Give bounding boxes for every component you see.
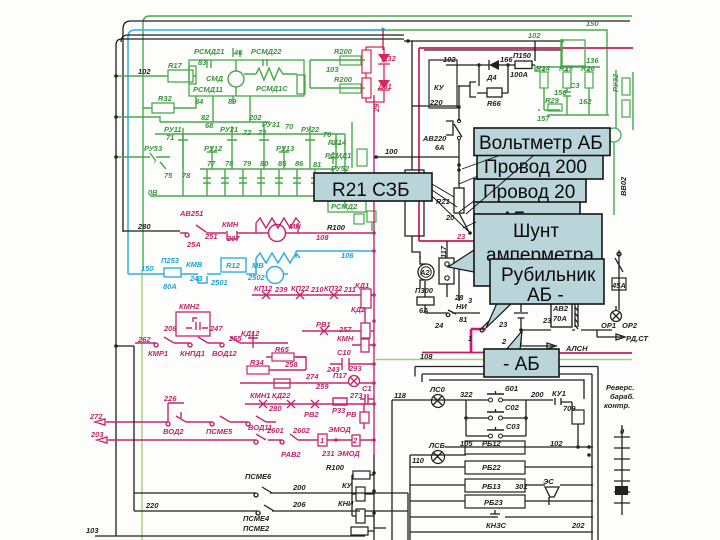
svg-text:R29: R29	[545, 96, 560, 105]
svg-text:С1: С1	[362, 384, 372, 393]
svg-text:КМВ: КМВ	[186, 260, 203, 269]
svg-text:R24: R24	[536, 64, 551, 73]
svg-text:ЭС: ЭС	[543, 477, 554, 486]
svg-text:150: 150	[141, 264, 154, 273]
svg-text:105: 105	[460, 439, 473, 448]
svg-text:РУ12: РУ12	[204, 144, 223, 153]
svg-text:Р33: Р33	[332, 406, 346, 415]
svg-text:РУ14: РУ14	[328, 138, 347, 147]
svg-text:РСМД11: РСМД11	[193, 85, 223, 94]
svg-text:РУ22: РУ22	[301, 125, 320, 134]
svg-text:102: 102	[443, 55, 456, 64]
svg-text:2601: 2601	[266, 426, 284, 435]
svg-text:КМН1: КМН1	[250, 391, 270, 400]
svg-text:6А: 6А	[435, 143, 445, 152]
svg-text:29: 29	[372, 103, 381, 113]
svg-text:2602: 2602	[292, 426, 311, 435]
svg-text:НИ: НИ	[456, 302, 467, 311]
svg-text:ЭМОД: ЭМОД	[328, 425, 351, 434]
svg-text:220: 220	[145, 501, 159, 510]
svg-text:КНИ: КНИ	[338, 499, 354, 508]
svg-text:РУ21: РУ21	[220, 125, 238, 134]
svg-text:293: 293	[348, 364, 362, 373]
svg-text:70: 70	[285, 122, 294, 131]
svg-text:226: 226	[163, 394, 177, 403]
svg-text:КД1: КД1	[355, 281, 369, 290]
svg-text:РУ32: РУ32	[611, 73, 620, 92]
svg-text:301: 301	[515, 482, 528, 491]
svg-text:103: 103	[86, 526, 99, 535]
svg-text:РБ23: РБ23	[484, 498, 503, 507]
svg-text:70А: 70А	[553, 314, 567, 323]
svg-text:РД,СТ: РД,СТ	[626, 334, 649, 343]
svg-text:R65: R65	[275, 345, 290, 354]
svg-text:1: 1	[320, 436, 324, 445]
svg-text:РУ13: РУ13	[276, 144, 295, 153]
svg-text:R34: R34	[250, 358, 265, 367]
svg-text:272: 272	[89, 412, 103, 421]
svg-text:П17: П17	[333, 371, 348, 380]
svg-text:АВ251: АВ251	[179, 209, 203, 218]
svg-text:РБ22: РБ22	[482, 463, 501, 472]
svg-text:200: 200	[292, 483, 306, 492]
svg-text:ПСМЕ6: ПСМЕ6	[245, 472, 272, 481]
svg-text:150: 150	[586, 19, 599, 28]
svg-text:84: 84	[195, 97, 204, 106]
svg-text:102: 102	[528, 31, 541, 40]
svg-text:220: 220	[429, 98, 443, 107]
svg-text:КД2: КД2	[351, 305, 366, 314]
svg-text:72: 72	[243, 128, 252, 137]
svg-text:Д4: Д4	[486, 73, 497, 82]
svg-text:А2: А2	[419, 268, 430, 277]
svg-text:ВОД12: ВОД12	[212, 349, 238, 358]
svg-text:322: 322	[460, 390, 473, 399]
svg-text:258: 258	[284, 360, 298, 369]
svg-text:100А: 100А	[510, 70, 528, 79]
svg-text:257: 257	[338, 325, 352, 334]
svg-text:206: 206	[292, 500, 306, 509]
svg-text:25А: 25А	[186, 240, 201, 249]
svg-text:РАВ2: РАВ2	[281, 450, 301, 459]
svg-text:Провод 20: Провод 20	[483, 182, 575, 203]
svg-text:МН: МН	[289, 222, 301, 231]
svg-text:R25: R25	[559, 64, 574, 73]
svg-text:Шунт: Шунт	[513, 221, 559, 242]
svg-text:КМН2: КМН2	[179, 302, 200, 311]
svg-text:КД22: КД22	[272, 391, 291, 400]
svg-text:Рубильник: Рубильник	[501, 265, 596, 286]
svg-text:РВ1: РВ1	[316, 320, 331, 329]
svg-text:85: 85	[278, 159, 287, 168]
svg-text:ПСМЕ4: ПСМЕ4	[243, 514, 270, 523]
svg-text:Д32: Д32	[381, 54, 397, 63]
svg-text:РУ52: РУ52	[331, 164, 350, 173]
svg-text:231: 231	[321, 449, 335, 458]
svg-text:РУ53: РУ53	[144, 144, 163, 153]
svg-text:6А: 6А	[419, 306, 429, 315]
svg-text:86: 86	[295, 159, 304, 168]
svg-text:РСМД1: РСМД1	[325, 151, 351, 160]
svg-text:89: 89	[228, 97, 237, 106]
svg-text:274: 274	[305, 372, 319, 381]
svg-text:23: 23	[456, 232, 466, 241]
svg-text:КУ: КУ	[434, 83, 445, 92]
svg-text:80: 80	[260, 159, 269, 168]
svg-text:24: 24	[434, 321, 444, 330]
svg-text:R12: R12	[226, 261, 241, 270]
svg-text:КП12: КП12	[254, 284, 273, 293]
svg-text:2: 2	[501, 337, 507, 346]
svg-text:0В: 0В	[148, 188, 158, 197]
svg-text:273: 273	[349, 391, 363, 400]
svg-text:R100: R100	[327, 223, 346, 232]
svg-text:108: 108	[420, 352, 433, 361]
svg-text:2502: 2502	[247, 273, 266, 282]
svg-text:РВ2: РВ2	[304, 410, 319, 419]
svg-text:С03: С03	[506, 422, 521, 431]
svg-text:ВОД2: ВОД2	[163, 427, 184, 436]
svg-text:280: 280	[137, 222, 151, 231]
svg-text:КП32: КП32	[324, 284, 343, 293]
svg-text:202: 202	[571, 521, 585, 530]
svg-text:157: 157	[537, 114, 550, 123]
svg-text:П300: П300	[415, 286, 434, 295]
svg-text:102: 102	[138, 67, 151, 76]
svg-text:280: 280	[268, 404, 282, 413]
svg-text:80А: 80А	[163, 282, 177, 291]
svg-text:202: 202	[248, 113, 262, 122]
svg-text:200: 200	[530, 390, 544, 399]
svg-text:КП22: КП22	[291, 284, 310, 293]
svg-text:Провод 200: Провод 200	[484, 157, 587, 178]
svg-text:709: 709	[563, 404, 576, 413]
svg-text:РСМД21: РСМД21	[194, 47, 224, 56]
svg-text:СМД: СМД	[206, 74, 224, 83]
svg-text:ВВ02: ВВ02	[619, 176, 628, 196]
svg-text:R66: R66	[487, 99, 502, 108]
svg-text:103: 103	[326, 65, 339, 74]
svg-text:73: 73	[258, 128, 267, 137]
svg-text:ЭМОД: ЭМОД	[337, 449, 360, 458]
svg-text:78: 78	[182, 171, 191, 180]
svg-text:78: 78	[225, 159, 234, 168]
svg-text:КУ1: КУ1	[552, 389, 566, 398]
svg-text:75: 75	[164, 171, 173, 180]
svg-text:П253: П253	[161, 256, 180, 265]
svg-text:210: 210	[310, 285, 324, 294]
svg-text:1: 1	[468, 334, 472, 343]
svg-text:КНЗС: КНЗС	[486, 521, 507, 530]
svg-text:162: 162	[579, 97, 592, 106]
svg-text:РВ: РВ	[346, 410, 357, 419]
svg-text:251: 251	[204, 232, 218, 241]
svg-text:68: 68	[205, 121, 214, 130]
svg-text:100: 100	[385, 147, 398, 156]
svg-text:262: 262	[137, 335, 151, 344]
svg-text:С10: С10	[337, 348, 352, 357]
svg-text:РБ12: РБ12	[482, 439, 501, 448]
svg-text:контр.: контр.	[604, 401, 630, 410]
svg-text:2501: 2501	[210, 278, 228, 287]
svg-text:R200: R200	[334, 47, 353, 56]
svg-text:КМН: КМН	[337, 334, 354, 343]
svg-text:23: 23	[498, 320, 508, 329]
svg-text:ПСМЕ5: ПСМЕ5	[206, 427, 233, 436]
svg-text:108: 108	[316, 233, 329, 242]
svg-text:81: 81	[313, 160, 321, 169]
svg-text:Реверс.: Реверс.	[606, 383, 634, 392]
svg-text:R17: R17	[168, 61, 183, 70]
svg-text:259: 259	[315, 382, 329, 391]
svg-text:118: 118	[394, 391, 407, 400]
svg-text:208: 208	[163, 324, 177, 333]
svg-text:106: 106	[341, 251, 354, 260]
svg-text:203: 203	[90, 430, 104, 439]
svg-text:Вольтметр АБ: Вольтметр АБ	[479, 133, 603, 154]
svg-text:КМР1: КМР1	[148, 349, 168, 358]
svg-text:79: 79	[243, 159, 252, 168]
svg-text:2: 2	[352, 436, 358, 445]
svg-text:АЛСН: АЛСН	[565, 344, 588, 353]
svg-text:ОР2: ОР2	[622, 321, 638, 330]
svg-text:R100: R100	[326, 463, 345, 472]
svg-text:б01: б01	[505, 384, 518, 393]
svg-text:R21 СЗБ: R21 СЗБ	[332, 180, 410, 201]
svg-text:156: 156	[554, 88, 567, 97]
svg-text:- АБ: - АБ	[503, 354, 540, 375]
svg-text:71: 71	[166, 133, 174, 142]
svg-text:102: 102	[550, 439, 563, 448]
svg-text:R200: R200	[334, 75, 353, 84]
svg-text:РСМД1С: РСМД1С	[256, 84, 288, 93]
svg-text:ПСМЕ2: ПСМЕ2	[243, 524, 270, 533]
svg-text:МВ: МВ	[252, 261, 264, 270]
svg-text:R32: R32	[158, 94, 173, 103]
svg-text:ЛС0: ЛС0	[429, 385, 446, 394]
svg-text:110: 110	[412, 456, 425, 465]
svg-text:28: 28	[454, 293, 464, 302]
svg-text:С02: С02	[505, 403, 520, 412]
svg-text:45А: 45А	[611, 281, 626, 290]
svg-text:R26: R26	[581, 64, 596, 73]
svg-text:РБ13: РБ13	[482, 482, 501, 491]
svg-text:ОР1: ОР1	[601, 321, 616, 330]
svg-text:КД12: КД12	[241, 329, 260, 338]
svg-text:166: 166	[500, 55, 513, 64]
svg-text:РСМД22: РСМД22	[251, 47, 282, 56]
svg-text:бараб.: бараб.	[610, 392, 634, 401]
svg-text:77: 77	[207, 159, 216, 168]
svg-text:КУ: КУ	[342, 481, 353, 490]
svg-text:П150: П150	[513, 51, 532, 60]
svg-text:239: 239	[274, 285, 288, 294]
svg-text:83: 83	[198, 58, 207, 67]
svg-text:247: 247	[209, 324, 223, 333]
svg-text:АБ -: АБ -	[527, 285, 564, 306]
svg-text:КМН: КМН	[222, 220, 239, 229]
svg-text:46: 46	[233, 48, 243, 57]
svg-text:207: 207	[226, 234, 240, 243]
svg-text:ЛСБ: ЛСБ	[428, 441, 446, 450]
svg-text:81: 81	[459, 315, 467, 324]
svg-text:КНПД1: КНПД1	[180, 349, 205, 358]
svg-text:117: 117	[439, 245, 448, 258]
svg-text:АВ220: АВ220	[422, 134, 447, 143]
svg-text:243: 243	[189, 274, 203, 283]
svg-text:23: 23	[542, 316, 552, 325]
svg-text:РСМД2: РСМД2	[331, 202, 358, 211]
svg-text:Д31: Д31	[377, 82, 392, 91]
svg-text:С3: С3	[570, 81, 580, 90]
